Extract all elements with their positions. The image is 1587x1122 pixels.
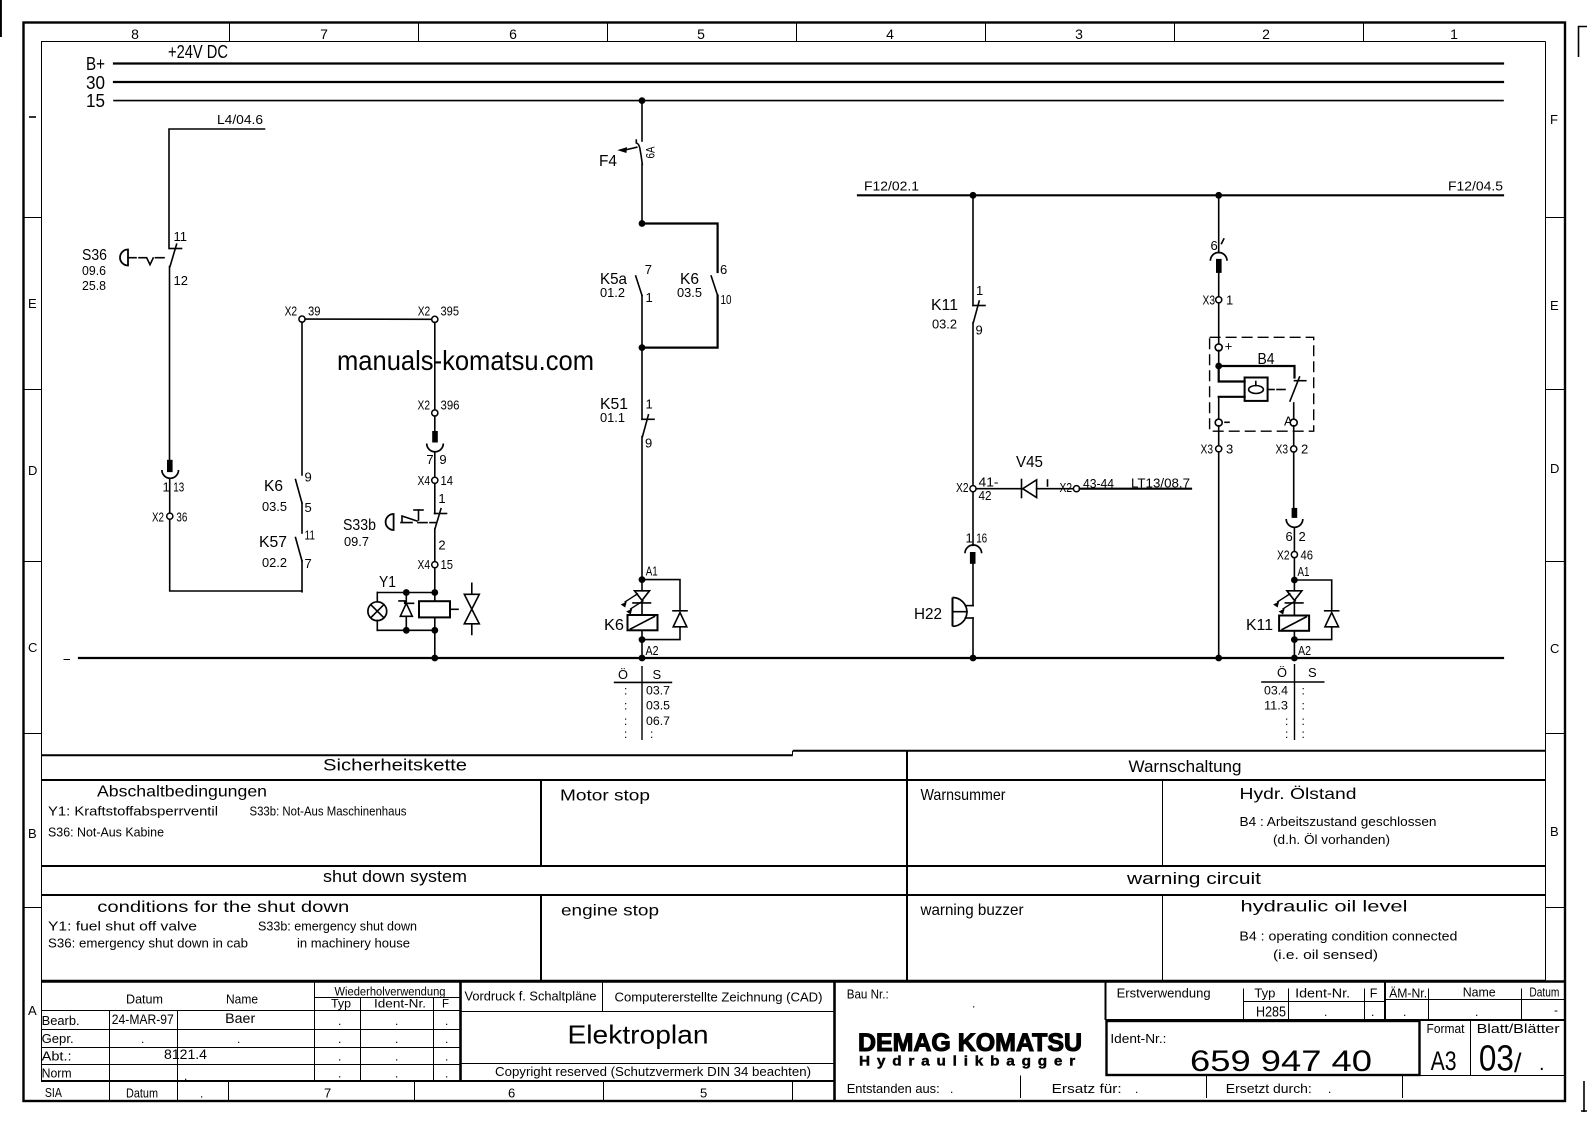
svg-text:Copyright reserved (Schutzverm: Copyright reserved (Schutzvermerk DIN 34… [495,1064,811,1079]
svg-text:13: 13 [173,480,184,495]
wire A2 to 0V rail [1293,640,1295,658]
svg-text::: : [1302,684,1305,698]
svg-text:.: . [141,1032,144,1046]
svg-text:1: 1 [1450,26,1458,42]
svg-text:X2: X2 [285,304,298,319]
svg-text:Bau Nr.:: Bau Nr.: [847,988,889,1002]
svg-text:S36: Not-Aus Kabine: S36: Not-Aus Kabine [48,826,164,840]
svg-text:7: 7 [645,262,652,277]
svg-text:+24V DC: +24V DC [168,42,228,62]
svg-text:Ersetzt durch:: Ersetzt durch: [1226,1081,1312,1096]
switch S36 (emergency stop, cab) [82,229,188,293]
svg-text:F4: F4 [599,153,617,170]
svg-text:S33b: S33b [343,517,376,534]
svg-text:7: 7 [324,1086,331,1101]
svg-text:K6: K6 [604,617,624,634]
svg-text:6: 6 [720,262,727,277]
svg-text:Gepr.: Gepr. [42,1031,74,1046]
contact cross-reference table K6 [615,666,672,741]
svg-text:Hydr. Ölstand: Hydr. Ölstand [1240,785,1357,803]
svg-text:Entstanden aus:: Entstanden aus: [847,1081,940,1096]
terminal X2:36 [152,510,187,525]
svg-text::: : [624,727,627,741]
connector pin 1/13 [162,460,184,495]
svg-text:/: / [1514,1048,1522,1078]
terminal X3:1 [1203,293,1234,308]
wire X2:36 down and right to K57 [170,519,302,591]
svg-text:1: 1 [646,397,653,412]
wire K57 to corner [301,561,303,592]
svg-text:F: F [442,999,449,1011]
wire X2:396 to connector [434,416,436,431]
svg-text::: : [1302,714,1305,728]
svg-text:5: 5 [700,1086,707,1101]
svg-text:Format: Format [1427,1022,1465,1036]
svg-text:warning circuit: warning circuit [1126,869,1262,888]
svg-text:Erstverwendung: Erstverwendung [1117,987,1211,1001]
svg-text::: : [1302,699,1305,713]
wire X2:41-42 to connector 1/16 [972,492,974,546]
relay contact K51 (NC) 1/9 [600,396,654,451]
svg-text:Wiederholverwendung: Wiederholverwendung [335,987,446,999]
function table [41,751,1546,981]
svg-text:SIA: SIA [45,1085,62,1100]
svg-text:C: C [28,640,37,655]
svg-text:F12/04.5: F12/04.5 [1448,179,1503,194]
buzzer H22 [914,598,973,627]
svg-text:A2: A2 [1298,643,1311,658]
svg-text:30: 30 [86,73,105,93]
svg-text:S33b: Not-Aus Maschinenhaus: S33b: Not-Aus Maschinenhaus [250,805,407,819]
svg-text:X3: X3 [1201,442,1214,457]
svg-text:6: 6 [1286,529,1293,544]
terminal X2:41-42 [956,475,999,504]
svg-text:S: S [1308,665,1317,680]
svg-text:2: 2 [1262,26,1270,42]
svg-text:6: 6 [509,26,517,42]
svg-text:X2: X2 [1277,548,1290,563]
svg-text:Abschaltbedingungen: Abschaltbedingungen [97,784,267,801]
wire parallel branch bottom [642,296,718,348]
bus 30 [86,73,1503,93]
svg-text:1: 1 [976,283,983,298]
svg-text:Motor stop: Motor stop [560,788,650,805]
svg-text:Datum: Datum [126,992,163,1007]
svg-text:02.2: 02.2 [262,555,287,570]
svg-text:.: . [200,1087,203,1101]
svg-text:A2: A2 [646,643,659,658]
svg-text:shut down system: shut down system [323,867,467,886]
svg-text:Typ: Typ [1254,987,1275,1001]
svg-text:Name: Name [226,992,258,1007]
svg-text:Ident-Nr.:: Ident-Nr.: [1110,1032,1166,1046]
svg-text:S33b: emergency shut down: S33b: emergency shut down [258,920,417,934]
wire to X2:36 [169,479,171,513]
svg-text::: : [1302,727,1305,741]
wire to X3:1 [1218,273,1220,297]
svg-text:03.2: 03.2 [932,317,957,332]
svg-text:01.2: 01.2 [600,285,625,300]
relay contact K5a (NO) 7/1 [600,262,653,305]
svg-text:36: 36 [176,510,187,525]
svg-text:D: D [28,463,37,478]
svg-text:F: F [1370,987,1378,1001]
fuse F4 6A [599,140,658,170]
svg-text:K57: K57 [259,534,287,551]
svg-text:11: 11 [174,229,188,244]
terminal X3:2 [1276,442,1309,457]
wire S36 to connector [169,267,171,461]
svg-text:Computererstellte Zeichnung (C: Computererstellte Zeichnung (CAD) [615,991,823,1005]
junction F12/K11 branch [970,192,977,199]
svg-text:(d.h. Öl vorhanden): (d.h. Öl vorhanden) [1273,833,1390,847]
svg-text:A1: A1 [1298,564,1310,579]
svg-text:03.5: 03.5 [646,699,670,713]
svg-text:X2: X2 [418,304,431,319]
svg-text:.: . [237,1032,240,1046]
svg-text:Blatt/Blätter: Blatt/Blätter [1477,1022,1560,1036]
svg-text:9: 9 [976,323,983,338]
svg-text:.: . [1539,1053,1545,1075]
freewheel diode (K6) [642,580,687,640]
svg-text:16: 16 [976,531,987,546]
0V rail [64,658,1504,660]
LED indicator (K6) [621,580,650,614]
svg-text:X4: X4 [418,557,431,572]
svg-text:(i.e. oil sensed): (i.e. oil sensed) [1273,948,1378,962]
svg-text:3: 3 [1075,26,1083,42]
svg-text:.: . [338,1067,341,1081]
svg-text:24-MAR-97: 24-MAR-97 [112,1012,174,1027]
svg-text::: : [624,699,627,713]
wire K51 to K6 coil [641,437,643,580]
wire to LT13/08.7 [1080,476,1191,491]
wire X2:39 to X2:395 [305,318,432,320]
svg-text:Ersatz für:: Ersatz für: [1052,1081,1122,1096]
terminal X2:43-44 [1060,476,1115,495]
svg-text:9: 9 [645,436,652,451]
svg-text:.: . [445,1050,448,1064]
svg-text:E: E [1550,298,1559,313]
svg-text:Vordruck f. Schaltpläne: Vordruck f. Schaltpläne [465,990,597,1004]
svg-text:X2: X2 [152,510,164,525]
terminal X3:3 [1201,442,1234,457]
wire X3:1 to B4 [1218,303,1220,344]
svg-text:15: 15 [86,91,105,111]
node A2 (K11) [1291,636,1311,658]
svg-text:.: . [184,1069,187,1083]
svg-text::: : [624,684,627,698]
wire F12 to connector 6/1 [1218,195,1220,252]
svg-text:F12/02.1: F12/02.1 [864,179,919,194]
svg-text:1: 1 [163,480,170,495]
svg-text:D: D [1550,461,1559,476]
svg-text:395: 395 [441,304,460,319]
svg-text:03.5: 03.5 [262,499,287,514]
svg-text:manuals-komatsu.com: manuals-komatsu.com [337,345,594,376]
svg-text::: : [1285,714,1288,728]
svg-text:1: 1 [646,290,653,305]
wire X4:15 to Y1 node [434,568,436,593]
connector pin 7/9 [426,431,446,467]
svg-text:3: 3 [1226,442,1233,457]
svg-text:X2: X2 [1060,480,1073,495]
node A2 (K6) [639,636,659,658]
svg-text:.: . [445,1067,448,1081]
junction Y1/rail [431,655,438,662]
bus 15 [86,91,1503,111]
wire K5a to node [641,296,643,348]
svg-text:S36: emergency shut down in ca: S36: emergency shut down in cab [48,937,248,951]
svg-text:+: + [1225,339,1233,354]
svg-text:.: . [395,1050,398,1064]
svg-text:in machinery house: in machinery house [297,937,410,951]
svg-text:09.6: 09.6 [82,263,106,278]
svg-text:K11: K11 [1246,617,1273,634]
svg-text:H22: H22 [914,606,942,623]
svg-text:-: - [1554,1003,1558,1017]
svg-text:2: 2 [438,538,445,553]
svg-text:A3: A3 [1431,1046,1457,1076]
relay coil K11 A1/A2 [1246,603,1309,640]
svg-text:6A: 6A [644,147,658,159]
svg-text:25.8: 25.8 [82,278,106,293]
svg-text:Datum: Datum [1529,986,1559,1000]
svg-text:hydraulic oil level: hydraulic oil level [1241,899,1408,916]
svg-text:11.3: 11.3 [1264,699,1288,713]
svg-text:03.5: 03.5 [677,285,702,300]
svg-text:C: C [1550,641,1559,656]
svg-text:F: F [1550,112,1558,127]
junction K11/rail [1291,655,1298,662]
svg-text:X2: X2 [956,480,969,495]
wire parallel branch right top [642,224,718,273]
freewheel diode (K11) [1294,580,1338,640]
svg-text:B4 : operating condition conne: B4 : operating condition connected [1239,930,1457,944]
svg-text:06.7: 06.7 [646,714,670,728]
svg-text:Warnsummer: Warnsummer [921,787,1007,804]
svg-text:X2: X2 [418,398,431,413]
junction 15-rail / F4 [639,97,646,104]
svg-text:1: 1 [1226,293,1233,308]
svg-text:X3: X3 [1203,293,1216,308]
junction F12/X3 branch [1215,192,1222,199]
svg-text:Ident-Nr.: Ident-Nr. [1295,987,1350,1001]
svg-text:Y1: fuel shut off valve: Y1: fuel shut off valve [48,920,197,934]
LED indicator (K11) [1274,580,1303,614]
svg-text:7: 7 [426,452,433,467]
wire X3:3 to 0V rail [1218,452,1220,658]
svg-text::: : [650,727,653,741]
svg-text:Elektroplan: Elektroplan [568,1020,709,1050]
junction X3 branch/rail [1215,655,1222,662]
wire X3:2 to connector 6/2 [1293,452,1295,508]
bus B+ [86,54,1503,74]
svg-text:.: . [338,1032,341,1046]
wire B4 A to X3:2 [1293,426,1295,446]
title block [41,982,1565,1101]
svg-text:42: 42 [979,488,992,503]
svg-text:.: . [445,1032,448,1046]
svg-text:V45: V45 [1016,454,1043,471]
node parallel branch top [639,220,646,227]
svg-text:engine stop: engine stop [561,903,659,920]
wire K6 to K57 [301,503,303,533]
svg-text:14: 14 [441,473,454,488]
relay coil K6 A1/A2 [604,603,658,640]
terminal X2:46 [1277,548,1313,563]
svg-text:03: 03 [1479,1038,1514,1079]
svg-text:.: . [1328,1082,1331,1096]
rail F12 [858,179,1503,196]
svg-text:4: 4 [886,26,894,42]
svg-text:conditions for the shut down: conditions for the shut down [97,899,349,916]
svg-text:1: 1 [438,491,445,506]
connector socket 6/1 [1210,238,1227,273]
svg-text:.: . [1475,1005,1478,1019]
svg-text:B: B [1550,824,1559,839]
svg-text:Ident-Nr.: Ident-Nr. [374,999,426,1011]
svg-text::: : [1285,727,1288,741]
svg-text:.: . [445,1014,448,1028]
wire H22 to 0V rail [972,618,974,658]
oil level switch B4 (dashed enclosure) [1210,337,1314,431]
svg-text:Datum: Datum [126,1086,158,1101]
terminal X4:15 [418,557,454,572]
svg-text:2: 2 [1299,529,1306,544]
wire K11 to X2:41-42 [972,323,974,486]
svg-text:10: 10 [721,292,732,307]
svg-text:03.4: 03.4 [1264,684,1288,698]
svg-text:Typ: Typ [331,999,351,1011]
svg-text:Name: Name [1463,986,1496,1000]
svg-text:.: . [395,1014,398,1028]
wire F4 to parallel branch [641,164,643,223]
svg-text::: : [624,714,627,728]
wire connector to H22 [972,564,974,606]
svg-text:6: 6 [508,1086,515,1101]
svg-text:.: . [1403,1005,1406,1019]
svg-text:7: 7 [320,26,328,42]
svg-text:ÄM-Nr.: ÄM-Nr. [1389,987,1427,1001]
svg-text:Y1: Y1 [379,574,396,591]
svg-text:11: 11 [305,528,316,543]
terminal X2:395 [418,304,459,323]
svg-text:Ö: Ö [618,667,628,682]
wire 15 rail to F4 [641,101,643,141]
wire X2:39 down to K6 contact [301,322,303,475]
svg-text:.: . [395,1032,398,1046]
wire Y1 to 0V rail [434,630,436,658]
connector pin 6/2 [1286,508,1306,544]
solenoid valve Y1 [368,574,479,635]
svg-text:.: . [1135,1082,1138,1096]
wire to X4:14 [434,452,436,477]
svg-text:Ö: Ö [1277,665,1287,680]
svg-text:B: B [28,826,37,841]
node A1 (K11) [1291,558,1310,584]
svg-text:S: S [653,667,662,682]
wire F12 to K11 contact [972,195,974,305]
svg-text:Baer: Baer [225,1011,256,1026]
svg-text:Warnschaltung: Warnschaltung [1129,757,1242,776]
wire to X4:15 [434,529,436,562]
svg-text:Hydraulikbagger: Hydraulikbagger [859,1054,1082,1069]
svg-text:.: . [1371,1005,1374,1019]
contact cross-reference table K11 [1262,664,1324,741]
svg-text:Sicherheitskette: Sicherheitskette [323,756,467,775]
svg-text:.: . [395,1067,398,1081]
terminal X2:396 [418,398,460,417]
wire A2 to 0V rail [641,640,643,658]
svg-text:09.7: 09.7 [344,534,369,549]
svg-text:.: . [1324,1005,1327,1019]
svg-text:12: 12 [174,273,188,288]
svg-text:B4 : Arbeitszustand geschlosse: B4 : Arbeitszustand geschlossen [1240,815,1437,829]
relay contact K6 (NO) 6/10 [677,262,732,307]
svg-text:Bearb.: Bearb. [42,1013,80,1028]
svg-text:01.1: 01.1 [600,410,625,425]
connector pin 1/16 [965,531,987,564]
junction H22/rail [970,655,977,662]
svg-text:396: 396 [441,398,460,413]
svg-text:.: . [338,1014,341,1028]
svg-text:.: . [972,997,975,1011]
wire X2:395 down [434,322,436,410]
switch S33b (emergency stop, machinery house) [343,483,447,552]
svg-text:659 947 40: 659 947 40 [1190,1045,1372,1078]
wire V45 to X2:43-44 [1037,488,1074,490]
svg-text:B+: B+ [86,54,105,74]
svg-text:03.7: 03.7 [646,684,670,698]
svg-text:15: 15 [441,557,454,572]
svg-text:46: 46 [1301,548,1314,563]
svg-text:X3: X3 [1276,442,1289,457]
svg-text:5: 5 [305,500,312,515]
svg-text:.: . [950,1082,953,1096]
svg-text:X4: X4 [418,473,431,488]
node A1 (K6) [639,564,658,583]
svg-text:A: A [28,1003,37,1018]
node parallel branch bottom [639,344,646,351]
junction K6/rail [639,655,646,662]
svg-text:K6: K6 [264,478,283,495]
terminal X4:14 [418,473,454,488]
svg-text:6: 6 [1211,238,1218,253]
relay contact K11 (NC) 1/9 [931,283,985,338]
svg-text:8121.4: 8121.4 [164,1047,208,1062]
wire L4/04.6 feeder [169,112,265,248]
svg-text:Abt.:: Abt.: [42,1049,72,1064]
wire node to K51 [641,348,643,420]
relay contact K57 (NO) 11/7 [259,528,315,572]
terminal X2:39 [285,304,321,323]
relay contact K6 (NO) 9/5 [262,470,312,516]
svg-text:7: 7 [305,556,312,571]
svg-text:warning buzzer: warning buzzer [920,902,1025,919]
svg-text:1: 1 [966,531,973,546]
svg-text:9: 9 [305,470,312,485]
svg-text:L4/04.6: L4/04.6 [217,112,263,127]
svg-text:E: E [28,296,37,311]
svg-text:9: 9 [439,452,446,467]
svg-text:S36: S36 [82,247,107,264]
wire B4- to X3:3 [1218,426,1220,446]
svg-text:39: 39 [308,304,321,319]
svg-text:8: 8 [131,26,139,42]
svg-text:K11: K11 [931,297,958,314]
diode V45 [976,454,1047,498]
